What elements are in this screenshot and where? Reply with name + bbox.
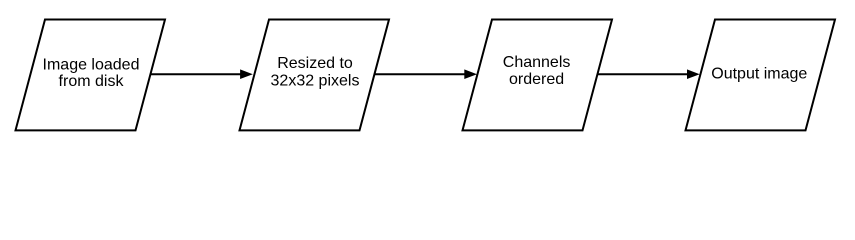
parallelogram: Image loaded from disk <box>16 20 166 131</box>
svg-text:Channels: Channels <box>503 54 571 71</box>
svg-text:32x32 pixels: 32x32 pixels <box>271 73 360 90</box>
arrow 3 <box>598 69 700 79</box>
svg-text:Resized to: Resized to <box>277 55 353 72</box>
arrow 1 <box>151 69 253 79</box>
parallelogram: Channels ordered <box>463 20 613 131</box>
parallelogram: Resized to 32x32 pixels <box>240 20 390 131</box>
parallelogram: Output image <box>686 20 836 131</box>
svg-text:Output image: Output image <box>711 66 807 83</box>
arrow 2 <box>375 69 478 79</box>
svg-text:Image loaded: Image loaded <box>43 56 140 73</box>
svg-text:from disk: from disk <box>59 73 125 90</box>
svg-text:ordered: ordered <box>509 71 564 88</box>
